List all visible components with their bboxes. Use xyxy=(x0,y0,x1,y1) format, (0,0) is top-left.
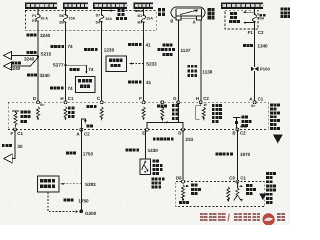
connector terminal B-C2 xyxy=(236,128,239,131)
wire 1340 lower xyxy=(254,71,256,102)
connector terminal C9-C1 xyxy=(236,180,239,183)
rheostat below D8 xyxy=(182,185,185,202)
corner note top-right (Chinese column) xyxy=(281,8,291,19)
header label bar4 (black bar, white Chinese text) xyxy=(134,2,154,9)
power distribution box (center) xyxy=(106,56,127,72)
pin label H C1 xyxy=(60,96,74,101)
connector terminal D xyxy=(37,101,40,104)
auto headlamp switch inside right module xyxy=(233,118,241,130)
label 1 lt-blue 74 (bottom) xyxy=(50,86,73,91)
connector terminal F xyxy=(142,101,145,104)
pin label B C2 xyxy=(232,131,246,136)
header label bar1 (black bar, white Chinese text) xyxy=(25,2,58,9)
header label bar2 (black bar, white Chinese text) xyxy=(63,2,88,9)
gauge terminal B xyxy=(170,16,181,24)
fuse F2 10A (pins B6/B5) xyxy=(59,14,75,25)
wire 1430 xyxy=(144,130,146,159)
A C2 bracket with arrow xyxy=(81,119,86,130)
ignition-1 labelled stub at x162 xyxy=(157,104,167,121)
connector terminal H-C2 xyxy=(199,101,202,104)
instrument gauge / dimmer rheostat (stadium outline) xyxy=(171,7,205,18)
driver transistor below C9 xyxy=(234,182,244,202)
connector terminal D xyxy=(182,128,185,131)
label right of gauge (Chinese) xyxy=(208,8,215,19)
label 0.35 violet/white 1137 xyxy=(158,43,191,55)
arrows from fuse F5 wire to its label xyxy=(243,11,255,13)
connector terminal D8 xyxy=(182,180,185,183)
connector terminal A-C1 xyxy=(253,101,256,104)
wire from bar3 to fuse F3 xyxy=(101,9,103,15)
pin label C9 C1 xyxy=(229,176,246,181)
fuse F3 10A (pins D7/D4) xyxy=(96,14,113,25)
text column right of H C2 stub (2 cols x 5 rows) xyxy=(212,104,222,123)
wire 150 to ground arrow xyxy=(12,130,15,159)
arrow from fuse F4 wire to power-distribution label xyxy=(134,10,144,12)
connector terminal C xyxy=(100,101,103,104)
pin label A C1 xyxy=(249,96,263,101)
label 0.35 brown 41 (bottom) xyxy=(128,80,152,85)
power distribution box (mid-left) xyxy=(76,77,95,93)
ground distribution box xyxy=(37,176,59,192)
loop + rheostat below H C2 xyxy=(196,102,208,120)
pin label F C1 xyxy=(11,131,24,136)
splice S215 xyxy=(37,51,52,57)
wire from bar2 to fuse F2 xyxy=(65,9,67,15)
wire 41 xyxy=(143,22,145,102)
rheostat stub inside BCM at x228 xyxy=(227,187,230,203)
splice S283 dashed reference arrow xyxy=(61,182,97,187)
rheostat stub below D xyxy=(37,107,40,121)
harness connector dashed line (lower) xyxy=(8,129,268,131)
label 1 black 1750 (lower) xyxy=(64,199,90,204)
label 0.35 orange 1239 xyxy=(84,48,114,53)
wire 1239 xyxy=(101,22,103,103)
label 1 black 1750 (upper) xyxy=(66,151,93,156)
label 1 black 3240 (top) xyxy=(27,33,51,38)
rheostat stub below H C1 xyxy=(64,107,67,121)
connector terminal G xyxy=(177,101,180,104)
tiny text above B C2 xyxy=(241,126,247,128)
label: power distribution cell inside right box (Chinese) xyxy=(229,12,240,23)
dashed route from ground box to G200 xyxy=(48,192,79,213)
rheostat stub below F xyxy=(142,107,145,121)
bracket wire E to D with flow arrow xyxy=(147,121,183,130)
text column right of right module (7 rows) xyxy=(270,104,280,130)
pin label H C2 xyxy=(196,96,210,101)
label 0.35 brown 41 (top) xyxy=(128,42,151,47)
wire 1750 xyxy=(80,130,82,212)
connector P100 (bowtie) xyxy=(251,67,271,72)
label 0.8 brown/white 1970 xyxy=(216,152,251,157)
label 1 black 3240 (lower arrow) xyxy=(10,61,21,71)
connector terminal A-C2 xyxy=(80,128,83,131)
label 0.35 violet/black 1138 xyxy=(188,65,213,77)
wire 3240 (circuit 1) xyxy=(37,21,39,102)
text column right of x162 stub xyxy=(172,104,178,120)
wire 1340 upper xyxy=(254,22,256,67)
gauge terminal A xyxy=(193,16,202,25)
fuse F5 20A xyxy=(252,14,264,23)
connector terminal F-C1 xyxy=(14,128,17,131)
label 1 brown 1340 xyxy=(243,44,268,49)
splice S277 with branch to PD box xyxy=(53,63,88,74)
text right of H C1 stub xyxy=(68,107,75,118)
label left of gauge (Chinese) xyxy=(158,8,165,16)
fuse block dashed enclosure xyxy=(26,11,157,31)
connector terminal E xyxy=(145,128,148,131)
switch note text (3 rows, parenthetical) xyxy=(152,178,165,189)
off-page arrow (3240) lower xyxy=(4,58,39,71)
ignition-1 label left of C stub xyxy=(87,105,97,108)
label 1 black 3240 (mid) xyxy=(27,73,50,78)
wire 1137 from gauge B xyxy=(177,20,179,102)
fuse F4 15A (pins B1/B4) xyxy=(137,14,153,24)
dots right of A C2 bracket xyxy=(87,125,94,128)
wire from bar1 to fuse F1 xyxy=(37,9,39,14)
pin label F1 C2 under relay box xyxy=(248,30,264,35)
left module text (Chinese, 3 rows) xyxy=(21,111,31,123)
wire 74 xyxy=(65,22,67,102)
body control module dashed box xyxy=(176,182,264,207)
tiny B+ mark right of D xyxy=(40,103,44,107)
label 1 lt-blue 74 (branch) xyxy=(70,67,94,72)
splice S233 dashed reference arrow xyxy=(129,62,157,67)
arrow from fuse F3 wire to power-distribution label xyxy=(102,9,114,11)
rheostat stub below C xyxy=(100,107,103,121)
header label bar5 (black bar, white Chinese text) xyxy=(221,2,264,9)
label 0.35 orange/black 233 xyxy=(153,137,194,142)
label 1 black 150 xyxy=(2,144,23,149)
label 1 black 3240 (upper arrow) xyxy=(24,51,37,62)
label: power distribution cell (Chinese) xyxy=(116,9,127,20)
watermark: toutiao red text xyxy=(200,213,285,224)
switch label text (4 rows) xyxy=(153,160,163,176)
ground triangle right of module row xyxy=(273,134,283,143)
fuse F1 30A (pins P1/P2) xyxy=(32,13,48,23)
tiny B+ mark below A C1 xyxy=(251,104,255,108)
relay/fuse dashed enclosure top-right xyxy=(225,10,258,29)
label 1 lt-blue 74 (top) xyxy=(51,44,74,49)
wire 1138 from gauge A xyxy=(200,20,202,102)
small label right of relay box xyxy=(260,14,266,17)
text inside right module (3 rows) xyxy=(241,116,251,127)
ground G200 xyxy=(79,209,96,215)
off-page/ground open arrow bottom-left xyxy=(4,154,12,163)
connector terminal H-C1 xyxy=(64,101,67,104)
off-page arrow (3240) upper xyxy=(4,52,39,60)
connector terminal stub xyxy=(161,101,164,104)
pin label A C2 xyxy=(76,132,90,137)
instrument module dashed left edge xyxy=(7,102,9,129)
lamp/coil element inside left module xyxy=(12,111,19,130)
BCM text (3 rows) xyxy=(246,184,256,195)
wire below G to bracket xyxy=(177,102,179,122)
wire from bar4 to fuse F4 xyxy=(143,9,145,15)
back-up lamp switch box xyxy=(140,159,151,175)
label 0.8 lt-blue 1430 xyxy=(126,148,159,153)
watermark: red circular logo xyxy=(262,213,274,225)
wire 233 xyxy=(182,130,184,182)
harness connector dashed line (upper) xyxy=(8,101,268,103)
arrow + text right of D8 (3 rows) xyxy=(186,184,201,195)
ground triangle inside BCM xyxy=(259,194,266,201)
text column right of BCM (8 rows) xyxy=(266,172,276,204)
wire 1970 xyxy=(236,130,238,182)
right module dashed right edge xyxy=(267,102,269,129)
header label bar3 (black bar, white Chinese text) xyxy=(93,2,128,9)
wire from bar5 to fuse F5 xyxy=(254,9,256,15)
ignition-1 label under D8 rheostat xyxy=(179,201,189,204)
